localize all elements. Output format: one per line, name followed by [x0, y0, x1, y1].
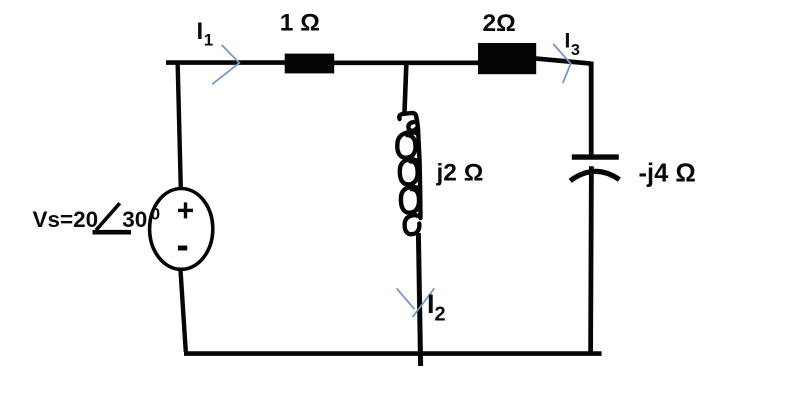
angle symbol diagonal stroke	[96, 203, 120, 230]
wire left vertical upper (top wire to source)	[178, 61, 181, 189]
capacitor C1 top plate	[572, 154, 619, 159]
current arrow I3 (blue chevron at top right)	[553, 44, 570, 83]
wire right vertical upper (corner to capacitor)	[589, 62, 594, 156]
wire top horizontal left segment	[166, 60, 288, 65]
resistor R2 2 ohm body	[478, 43, 536, 74]
wire right vertical lower (capacitor to bottom)	[588, 166, 594, 353]
minus sign inside source	[178, 246, 187, 251]
resistor R1 1 ohm body	[285, 54, 335, 74]
svg-text:0: 0	[151, 204, 160, 223]
current arrow I2 (blue V on middle branch)	[397, 288, 435, 317]
svg-text:30: 30	[122, 207, 147, 232]
svg-text:1: 1	[204, 30, 213, 49]
svg-text:Vs=20: Vs=20	[33, 207, 99, 232]
svg-text:2Ω: 2Ω	[483, 10, 516, 37]
svg-text:I: I	[197, 18, 204, 45]
wire left vertical lower (source to bottom wire)	[180, 269, 185, 352]
wire middle vertical lower (inductor to below bottom wire)	[418, 233, 420, 366]
wire top horizontal middle segment	[333, 60, 480, 65]
wire middle vertical upper (top wire to inductor)	[404, 63, 406, 115]
svg-text:1 Ω: 1 Ω	[280, 9, 320, 36]
svg-text:-j4 Ω: -j4 Ω	[639, 159, 696, 187]
svg-text:I: I	[427, 289, 435, 319]
capacitor C1 bottom curved plate	[570, 171, 619, 180]
current arrow I1 (blue chevron on top wire)	[212, 45, 239, 84]
svg-text:2: 2	[435, 303, 446, 325]
wire from R2 to top-right corner	[535, 58, 591, 63]
svg-text:I: I	[565, 30, 571, 53]
inductor L1 j2 ohm scribbled coil	[397, 113, 420, 234]
svg-text:3: 3	[571, 42, 580, 59]
wire bottom horizontal	[184, 351, 602, 356]
angle symbol horizontal stroke	[93, 230, 132, 235]
voltage source VS ellipse	[150, 189, 213, 270]
svg-text:j2 Ω: j2 Ω	[436, 159, 484, 186]
plus sign inside source	[184, 202, 187, 218]
